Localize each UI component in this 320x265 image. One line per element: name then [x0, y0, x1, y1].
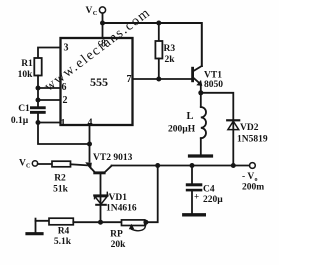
- wire C1 bottom: [37, 114, 39, 123]
- node pin4 junction: [87, 142, 92, 147]
- svg-text:R3: R3: [164, 44, 176, 54]
- ground (left): [36, 221, 50, 233]
- svg-text:V: V: [19, 159, 26, 169]
- svg-text:VD2: VD2: [240, 123, 259, 133]
- wire VT1 emitter down: [200, 85, 202, 93]
- wire top rail: [103, 23, 202, 66]
- capacitor C4 220u: [191, 166, 193, 184]
- wire VD2 to rail: [232, 120, 234, 165]
- wire down to pin2 node: [37, 88, 39, 100]
- node pin6 junction: [36, 86, 41, 91]
- svg-text:6: 6: [62, 82, 67, 93]
- node R3 top: [156, 21, 161, 26]
- svg-text:5.1k: 5.1k: [54, 237, 72, 247]
- wire R2 to VT2: [71, 164, 88, 165]
- svg-text:8050: 8050: [204, 80, 223, 90]
- svg-text:3: 3: [64, 43, 69, 54]
- wire pin8: [102, 23, 104, 38]
- inductor L 200uH: [200, 93, 202, 107]
- svg-text:V: V: [86, 6, 93, 16]
- resistor R2 51k: [52, 161, 71, 167]
- node pin2 junction: [36, 98, 41, 103]
- svg-text:- V: - V: [242, 172, 254, 182]
- node VD1 bottom: [98, 220, 103, 225]
- svg-text:0.1µ: 0.1µ: [11, 116, 29, 126]
- svg-text:1: 1: [61, 118, 66, 129]
- wire to pin 6: [38, 87, 61, 89]
- svg-text:C4: C4: [203, 185, 215, 195]
- svg-text:C: C: [26, 164, 30, 170]
- wire RP to riser: [146, 166, 158, 223]
- wire R4 to RP: [73, 221, 121, 223]
- potentiometer RP 20k: [122, 220, 145, 226]
- wire output rail: [112, 165, 250, 167]
- wire to VD2: [201, 93, 234, 120]
- node pin1 junction: [36, 120, 41, 125]
- svg-text:C: C: [93, 10, 98, 17]
- svg-text:VD1: VD1: [109, 193, 128, 203]
- node RP riser: [155, 163, 160, 168]
- wire to C1: [37, 100, 39, 106]
- svg-text:R4: R4: [58, 227, 70, 237]
- wire Vc to R2: [38, 163, 52, 165]
- svg-text:200µH: 200µH: [168, 125, 196, 135]
- diode VD1 1N4616 zener: [94, 194, 107, 196]
- svg-text:1N5819: 1N5819: [237, 135, 268, 145]
- svg-text:L: L: [187, 111, 194, 122]
- svg-text:220µ: 220µ: [203, 195, 223, 205]
- diode VD2 1N5819: [227, 119, 239, 121]
- wire VD1 to bottom line: [100, 196, 102, 223]
- node R3 bottom: [156, 77, 161, 82]
- wire R1 bottom: [37, 76, 39, 89]
- node emitter junction: [198, 90, 203, 95]
- wire VT2 base down: [100, 174, 102, 194]
- ground (L): [190, 154, 212, 157]
- svg-text:20k: 20k: [111, 240, 127, 250]
- wire pin4 down: [89, 125, 91, 162]
- wire pin3 to R1: [38, 48, 61, 59]
- node C4: [190, 163, 195, 168]
- svg-text:200m: 200m: [242, 183, 264, 193]
- resistor R1: [34, 58, 41, 76]
- svg-text:51k: 51k: [53, 185, 69, 195]
- wire to pin 1: [38, 122, 61, 124]
- terminal Vc (top): [99, 7, 105, 13]
- resistor R4 5.1k: [49, 218, 73, 225]
- svg-text:RP: RP: [110, 230, 123, 240]
- svg-text:R2: R2: [54, 174, 66, 184]
- resistor R3 2k: [158, 23, 160, 41]
- ground (C4): [184, 213, 205, 216]
- wire to pin 2: [38, 99, 61, 101]
- svg-text:10k: 10k: [18, 70, 34, 80]
- wire down and across to pin4 line: [38, 123, 90, 145]
- IC U1 555 timer: [61, 38, 133, 125]
- terminal Vc (left): [32, 161, 37, 166]
- terminal -Vo: [250, 163, 256, 169]
- node VD2: [231, 163, 236, 168]
- svg-text:VT1: VT1: [204, 71, 222, 81]
- svg-text:VT2 9013: VT2 9013: [93, 153, 133, 163]
- capacitor C1 0.1u: [30, 106, 46, 109]
- svg-text:7: 7: [127, 74, 132, 85]
- svg-text:R1: R1: [21, 59, 33, 69]
- wire Vc to rail: [102, 13, 104, 23]
- svg-text:555: 555: [90, 75, 108, 89]
- svg-text:+: +: [194, 192, 199, 202]
- svg-text:8: 8: [101, 39, 106, 50]
- svg-text:2k: 2k: [165, 55, 176, 65]
- transistor VT1 8050: [191, 67, 194, 82]
- node Vc/pin8: [100, 21, 105, 26]
- svg-text:C1: C1: [18, 104, 30, 114]
- svg-text:1N4616: 1N4616: [106, 204, 137, 214]
- svg-text:2: 2: [63, 95, 68, 106]
- wire pin7 to VT1 base: [133, 78, 192, 80]
